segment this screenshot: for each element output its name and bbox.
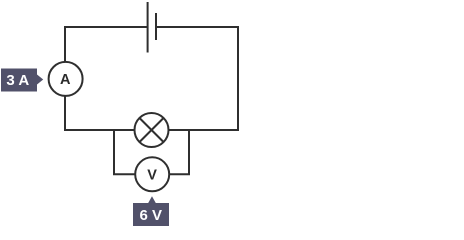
wire main loop bbox=[65, 27, 238, 130]
callout tag 3 A arrow bbox=[37, 75, 43, 85]
voltmeter U2 circle bbox=[135, 157, 169, 191]
ammeter U1 circle bbox=[49, 62, 83, 96]
battery cell long plate (positive) bbox=[147, 2, 149, 53]
callout tag 3 A box bbox=[1, 69, 37, 92]
callout tag 6 V box bbox=[133, 203, 169, 226]
battery cell short plate (negative) bbox=[155, 13, 157, 40]
callout tag 6 V arrow bbox=[148, 196, 156, 203]
lamp L1 circle bbox=[135, 113, 169, 147]
svg-text:6 V: 6 V bbox=[140, 207, 163, 224]
lamp L1 cross stroke 2 bbox=[140, 118, 164, 142]
svg-text:3 A: 3 A bbox=[6, 72, 29, 89]
lamp L1 cross stroke 1 bbox=[140, 118, 164, 142]
svg-text:A: A bbox=[60, 72, 71, 88]
svg-text:V: V bbox=[147, 168, 157, 184]
wire voltmeter parallel branch bbox=[114, 129, 189, 174]
